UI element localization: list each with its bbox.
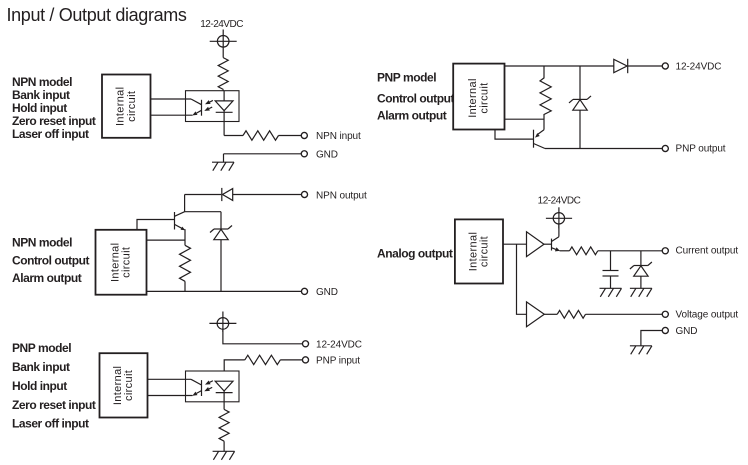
light arrow 2 bbox=[204, 107, 212, 111]
transistor Q3 (NPN) bbox=[552, 237, 560, 252]
optocoupler PC1 body bbox=[186, 91, 240, 122]
wire box to emitter node bbox=[505, 118, 545, 120]
light arrow 1 bbox=[205, 380, 213, 384]
svg-text:PNP model: PNP model bbox=[12, 341, 71, 355]
transistor Q1 (NPN) bbox=[175, 212, 186, 231]
svg-text:Alarm output: Alarm output bbox=[377, 108, 447, 122]
svg-text:circuit: circuit bbox=[123, 370, 135, 401]
supply terminal symbol bbox=[210, 30, 237, 58]
svg-text:12-24VDC: 12-24VDC bbox=[316, 340, 362, 351]
ground symbol (zener) bbox=[630, 288, 652, 297]
svg-text:NPN model: NPN model bbox=[12, 236, 72, 250]
svg-text:Internal: Internal bbox=[115, 87, 127, 127]
ground symbol bbox=[213, 451, 235, 460]
GND terminal bbox=[662, 327, 668, 333]
LED (opto) bbox=[215, 101, 233, 136]
op-amp buffer A1 bbox=[527, 232, 545, 257]
svg-text:Laser off input: Laser off input bbox=[12, 416, 89, 430]
wire resistor to NPN input terminal bbox=[279, 135, 302, 137]
PNP output terminal bbox=[662, 145, 668, 151]
wire op-amp2 to resistor bbox=[544, 313, 557, 315]
svg-text:GND: GND bbox=[676, 326, 698, 337]
svg-text:Voltage output: Voltage output bbox=[676, 310, 739, 321]
svg-text:NPN input: NPN input bbox=[316, 131, 361, 142]
wire internal circuit to opto (upper) bbox=[148, 378, 192, 380]
svg-text:PNP model: PNP model bbox=[377, 70, 436, 84]
svg-text:Control output: Control output bbox=[12, 253, 89, 267]
internal circuit box U1 bbox=[102, 75, 151, 138]
wire box to emitter node bbox=[147, 239, 186, 241]
GND terminal bbox=[301, 151, 307, 157]
12-24VDC terminal bbox=[662, 63, 668, 69]
NPN input terminal bbox=[301, 132, 307, 138]
wire internal circuit to opto (lower) bbox=[148, 395, 193, 397]
svg-text:GND: GND bbox=[316, 150, 338, 161]
wire PNP input corner to LED bbox=[224, 360, 245, 371]
PNP input terminal bbox=[302, 357, 308, 363]
wire op-amp to base bbox=[544, 243, 552, 245]
wire collector to diode bbox=[185, 194, 222, 196]
svg-text:Internal: Internal bbox=[467, 232, 479, 272]
zener ZD3 bbox=[630, 251, 652, 288]
svg-text:NPN model: NPN model bbox=[12, 75, 72, 89]
resistor R2 (NPN input) bbox=[243, 131, 278, 140]
svg-text:12-24VDC: 12-24VDC bbox=[538, 196, 581, 207]
internal circuit box U4 bbox=[453, 64, 504, 130]
svg-text:NPN output: NPN output bbox=[316, 190, 367, 201]
resistor R8 (voltage output) bbox=[557, 310, 585, 318]
svg-text:Alarm output: Alarm output bbox=[12, 271, 82, 285]
internal circuit box U3 bbox=[100, 353, 148, 417]
resistor R5 (LED cathode) bbox=[219, 409, 229, 441]
wire internal circuit to opto (upper) bbox=[151, 98, 192, 100]
Voltage output terminal bbox=[662, 311, 668, 317]
svg-text:12-24VDC: 12-24VDC bbox=[676, 62, 722, 73]
svg-text:Bank input: Bank input bbox=[12, 360, 70, 374]
svg-text:circuit: circuit bbox=[478, 82, 490, 113]
svg-text:Control output: Control output bbox=[377, 91, 454, 105]
svg-text:Laser off input: Laser off input bbox=[12, 127, 89, 141]
svg-text:PNP input: PNP input bbox=[316, 356, 360, 367]
svg-text:12-24VDC: 12-24VDC bbox=[200, 19, 243, 30]
NPN output terminal bbox=[301, 191, 307, 197]
wire collector up bbox=[184, 195, 186, 212]
wire emitter to resistor bbox=[560, 250, 570, 252]
diode D2 bbox=[614, 59, 628, 73]
optocoupler PC2 body bbox=[186, 371, 240, 402]
svg-text:circuit: circuit bbox=[479, 236, 491, 267]
resistor R4 (PNP input) bbox=[245, 355, 280, 364]
wire base from box bbox=[137, 220, 175, 230]
svg-text:Internal: Internal bbox=[112, 366, 124, 406]
wire GND bbox=[224, 153, 302, 155]
zener ZD2 bbox=[569, 66, 591, 149]
svg-text:PNP output: PNP output bbox=[676, 144, 726, 155]
svg-text:Internal: Internal bbox=[109, 243, 121, 283]
svg-text:Hold input: Hold input bbox=[12, 379, 67, 393]
svg-text:Current output: Current output bbox=[676, 246, 739, 257]
wire collector node to zener bbox=[185, 211, 221, 213]
capacitor C1 bbox=[603, 251, 619, 288]
ground symbol (capacitor) bbox=[600, 288, 622, 297]
LED (opto) bbox=[215, 381, 233, 409]
resistor R7 (current output) bbox=[570, 247, 598, 255]
internal circuit box U5 bbox=[455, 219, 503, 283]
resistor R3 bbox=[180, 245, 191, 281]
wire +V rail bbox=[505, 65, 614, 67]
wire supply to 12-24VDC terminal bbox=[223, 329, 303, 344]
12-24VDC terminal bbox=[302, 341, 308, 347]
zener ZD1 bbox=[210, 212, 232, 292]
transistor Q2 (PNP) bbox=[534, 130, 546, 149]
GND terminal bbox=[301, 288, 307, 294]
svg-text:Analog output: Analog output bbox=[377, 246, 453, 260]
light arrow 1 bbox=[205, 100, 213, 104]
svg-text:Bank input: Bank input bbox=[12, 88, 70, 102]
diode D1 bbox=[222, 188, 233, 201]
wire resistor to PNP input terminal bbox=[280, 359, 302, 361]
internal circuit box U2 bbox=[96, 230, 147, 295]
wire internal circuit to opto (lower) bbox=[151, 114, 193, 116]
wire resistor to GND rail bbox=[184, 281, 186, 291]
resistor R6 bbox=[540, 66, 551, 130]
wire branch to op-amp2 bbox=[517, 244, 527, 314]
supply terminal symbol bbox=[209, 312, 236, 332]
wire GND terminal to ground bbox=[641, 331, 662, 346]
resistor R1 (supply dropper) bbox=[218, 58, 228, 90]
LED (opto) anode wire bbox=[223, 91, 225, 101]
wire resistor to Current output terminal bbox=[598, 250, 662, 252]
svg-text:GND: GND bbox=[316, 287, 338, 298]
svg-text:Zero reset input: Zero reset input bbox=[12, 114, 96, 128]
wire supply to collector bbox=[558, 224, 560, 237]
ground symbol bbox=[212, 154, 234, 171]
phototransistor (opto) bbox=[191, 99, 202, 116]
wire diode to 12-24VDC terminal bbox=[628, 65, 663, 67]
wire PNP output bbox=[545, 148, 662, 150]
svg-text:Internal: Internal bbox=[467, 78, 479, 118]
svg-text:Zero reset input: Zero reset input bbox=[12, 398, 96, 412]
ground symbol (GND) bbox=[630, 346, 652, 355]
wire box to op-amp1 bbox=[503, 243, 527, 245]
wire resistor to Voltage output terminal bbox=[586, 313, 663, 315]
phototransistor (opto) bbox=[191, 379, 202, 396]
wire resistor to optocoupler bbox=[222, 89, 224, 91]
svg-text:circuit: circuit bbox=[126, 91, 138, 122]
wire base from box bbox=[495, 130, 534, 140]
wire resistor to ground bbox=[223, 441, 225, 451]
wire emitter down bbox=[184, 229, 186, 245]
wire GND rail bbox=[147, 290, 302, 292]
svg-text:circuit: circuit bbox=[121, 247, 133, 278]
op-amp buffer A2 bbox=[527, 302, 545, 327]
wire diode to NPN output terminal bbox=[233, 194, 302, 196]
light arrow 2 bbox=[204, 387, 212, 391]
svg-text:Input / Output diagrams: Input / Output diagrams bbox=[7, 5, 187, 25]
supply terminal symbol bbox=[546, 207, 572, 228]
svg-text:Hold input: Hold input bbox=[12, 101, 67, 115]
wire LED to input resistor bbox=[224, 135, 243, 137]
Current output terminal bbox=[662, 248, 668, 254]
